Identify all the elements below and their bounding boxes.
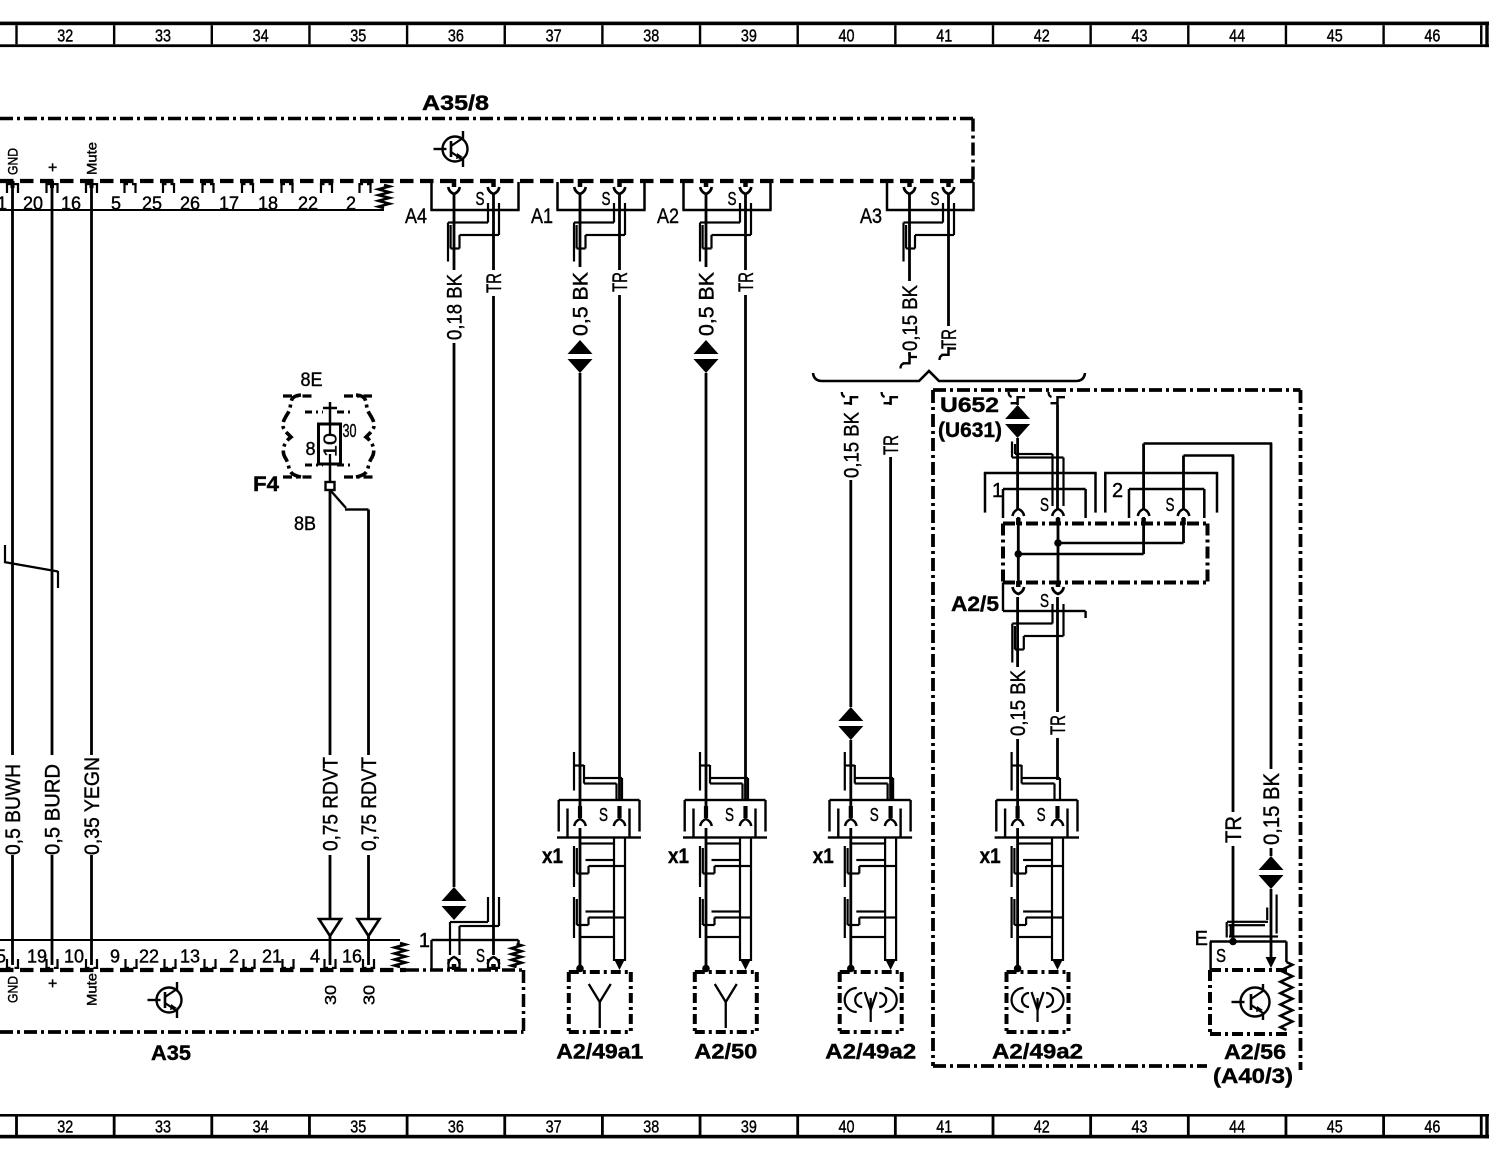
svg-text:8B: 8B	[294, 514, 316, 535]
svg-text:(U631): (U631)	[938, 419, 1002, 442]
svg-text:A4: A4	[405, 205, 427, 228]
svg-text:26: 26	[180, 194, 200, 214]
svg-text:20: 20	[23, 194, 43, 214]
svg-text:A35/8: A35/8	[422, 92, 489, 115]
svg-text:0,35 YEGN: 0,35 YEGN	[81, 757, 104, 855]
svg-text:S: S	[728, 189, 737, 209]
svg-text:A2: A2	[657, 205, 679, 228]
svg-text:+: +	[45, 979, 62, 988]
svg-text:10: 10	[64, 947, 84, 967]
svg-text:S: S	[476, 946, 485, 966]
svg-text:35: 35	[350, 26, 366, 46]
svg-text:33: 33	[155, 26, 171, 46]
svg-text:S: S	[602, 189, 611, 209]
svg-text:0,18 BK: 0,18 BK	[444, 274, 467, 340]
svg-text:TR: TR	[880, 435, 903, 455]
svg-text:30: 30	[343, 421, 357, 441]
svg-text:4: 4	[310, 947, 320, 967]
svg-text:0,75 RDVT: 0,75 RDVT	[358, 757, 381, 851]
svg-text:39: 39	[741, 1117, 757, 1137]
svg-text:36: 36	[448, 1117, 464, 1137]
svg-text:0,15 BK: 0,15 BK	[1007, 670, 1030, 736]
svg-text:16: 16	[61, 194, 81, 214]
svg-text:x1: x1	[668, 845, 689, 868]
svg-text:46: 46	[1424, 1117, 1440, 1137]
svg-text:0,5 BK: 0,5 BK	[696, 272, 719, 336]
svg-text:43: 43	[1132, 1117, 1148, 1137]
svg-text:A1: A1	[531, 205, 553, 228]
svg-text:S: S	[931, 189, 940, 209]
svg-text:32: 32	[57, 26, 73, 46]
svg-text:1: 1	[0, 194, 7, 214]
svg-text:A2/49a2: A2/49a2	[992, 1041, 1083, 1064]
svg-text:2: 2	[229, 947, 239, 967]
svg-text:34: 34	[253, 26, 269, 46]
svg-text:U652: U652	[940, 394, 999, 417]
svg-text:S: S	[599, 805, 608, 825]
svg-text:A2/50: A2/50	[694, 1041, 757, 1064]
svg-text:10: 10	[321, 433, 341, 457]
svg-text:A2/56: A2/56	[1224, 1041, 1286, 1064]
svg-text:A2/5: A2/5	[951, 593, 999, 616]
svg-text:S: S	[1040, 495, 1049, 515]
svg-text:35: 35	[350, 1117, 366, 1137]
svg-text:18: 18	[258, 194, 278, 214]
svg-text:30: 30	[361, 985, 378, 1005]
svg-text:x1: x1	[542, 845, 563, 868]
svg-text:38: 38	[643, 26, 659, 46]
svg-text:GND: GND	[5, 148, 21, 175]
svg-text:(A40/3): (A40/3)	[1213, 1065, 1293, 1088]
svg-text:A35: A35	[151, 1042, 191, 1065]
svg-text:5: 5	[0, 947, 6, 967]
svg-text:F4: F4	[253, 473, 279, 496]
svg-text:41: 41	[936, 26, 952, 46]
svg-text:1: 1	[992, 480, 1003, 502]
svg-text:8: 8	[305, 439, 315, 459]
svg-text:GND: GND	[5, 976, 21, 1003]
svg-text:S: S	[870, 805, 879, 825]
svg-text:TR: TR	[1221, 816, 1246, 843]
svg-text:2: 2	[1112, 480, 1123, 502]
svg-text:A2/49a1: A2/49a1	[556, 1041, 643, 1064]
svg-text:E: E	[1195, 928, 1208, 950]
svg-text:x1: x1	[813, 845, 834, 868]
svg-text:17: 17	[219, 194, 239, 214]
svg-text:x1: x1	[980, 845, 1001, 868]
svg-text:TR: TR	[609, 272, 632, 292]
svg-text:0,5 BURD: 0,5 BURD	[42, 764, 65, 855]
svg-text:43: 43	[1132, 26, 1148, 46]
svg-text:0,15 BK: 0,15 BK	[1259, 773, 1284, 845]
svg-text:46: 46	[1424, 26, 1440, 46]
svg-text:22: 22	[139, 947, 159, 967]
svg-text:45: 45	[1327, 1117, 1343, 1137]
svg-text:S: S	[1166, 495, 1175, 515]
svg-text:40: 40	[839, 1117, 855, 1137]
svg-text:34: 34	[253, 1117, 269, 1137]
svg-text:40: 40	[839, 26, 855, 46]
svg-text:S: S	[476, 189, 485, 209]
svg-text:1: 1	[419, 930, 430, 952]
svg-text:0,5 BUWH: 0,5 BUWH	[2, 764, 25, 855]
svg-text:0,5 BK: 0,5 BK	[570, 272, 593, 336]
svg-text:TR: TR	[735, 272, 758, 292]
svg-text:21: 21	[262, 947, 282, 967]
svg-text:TR: TR	[1047, 715, 1070, 735]
svg-text:39: 39	[741, 26, 757, 46]
svg-text:16: 16	[342, 947, 362, 967]
svg-text:+: +	[45, 163, 62, 172]
svg-text:A2/49a2: A2/49a2	[825, 1041, 916, 1064]
svg-text:19: 19	[27, 947, 47, 967]
svg-text:S: S	[1216, 946, 1226, 966]
svg-text:38: 38	[643, 1117, 659, 1137]
svg-text:22: 22	[298, 194, 318, 214]
svg-text:Mute: Mute	[84, 973, 100, 1006]
svg-text:32: 32	[57, 1117, 73, 1137]
svg-text:8E: 8E	[301, 370, 323, 391]
svg-text:30: 30	[323, 985, 340, 1005]
svg-text:25: 25	[142, 194, 162, 214]
svg-text:Mute: Mute	[84, 142, 100, 175]
svg-text:33: 33	[155, 1117, 171, 1137]
svg-text:TR: TR	[483, 273, 506, 293]
svg-text:2: 2	[346, 194, 356, 214]
svg-text:45: 45	[1327, 26, 1343, 46]
svg-text:37: 37	[546, 1117, 562, 1137]
svg-text:5: 5	[111, 194, 121, 214]
svg-text:0,15 BK: 0,15 BK	[899, 285, 922, 351]
svg-text:13: 13	[180, 947, 200, 967]
svg-text:36: 36	[448, 26, 464, 46]
svg-text:TR: TR	[938, 329, 961, 349]
svg-text:41: 41	[936, 1117, 952, 1137]
svg-text:S: S	[725, 805, 734, 825]
svg-text:42: 42	[1034, 1117, 1050, 1137]
svg-text:42: 42	[1034, 26, 1050, 46]
svg-text:S: S	[1040, 591, 1049, 611]
svg-text:0,15 BK: 0,15 BK	[840, 412, 863, 478]
svg-text:9: 9	[110, 947, 120, 967]
svg-text:37: 37	[546, 26, 562, 46]
svg-text:S: S	[1037, 805, 1046, 825]
svg-text:44: 44	[1229, 1117, 1245, 1137]
svg-text:44: 44	[1229, 26, 1245, 46]
svg-text:A3: A3	[860, 205, 882, 228]
svg-text:0,75 RDVT: 0,75 RDVT	[320, 757, 343, 851]
